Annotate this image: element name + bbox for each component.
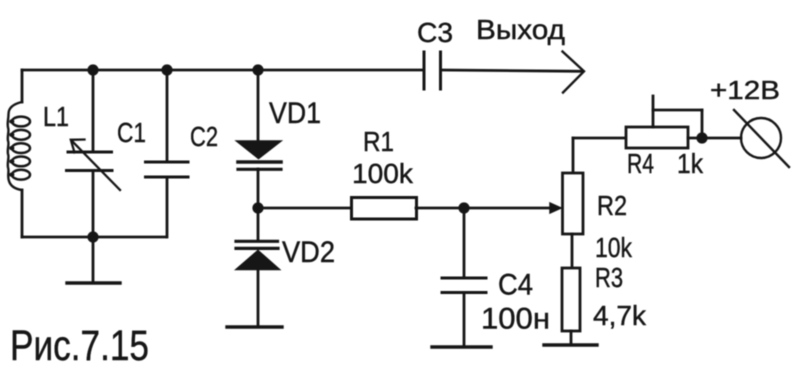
svg-text:L1: L1 [43, 101, 69, 132]
svg-text:VD1: VD1 [269, 97, 321, 130]
svg-text:100k: 100k [352, 158, 414, 189]
wire top bus left [22, 69, 424, 72]
svg-text:C4: C4 [498, 269, 533, 302]
svg-text:R2: R2 [597, 190, 627, 221]
wire mid bus (VD junction to R1) [258, 207, 351, 210]
node (R1 / C4 junction) [458, 202, 469, 213]
node (VD1/VD2 junction) [252, 202, 263, 213]
diode VD2 (varicap) [236, 208, 280, 327]
resistor R4 (trimmer) [626, 96, 702, 148]
wire bottom left bus [22, 236, 166, 239]
resistor R3 [562, 268, 580, 345]
wire node to R2 wiper (arrow) [464, 207, 554, 210]
svg-text:R4: R4 [627, 148, 654, 179]
svg-text:C1: C1 [117, 117, 146, 148]
node (VD1 top) [252, 64, 263, 75]
wire R4 to +12V terminal [688, 137, 741, 140]
terminal +12V [734, 110, 789, 167]
inductor L1 [8, 70, 30, 237]
wire R1 to node [416, 207, 464, 210]
svg-text:100н: 100н [481, 303, 550, 336]
svg-text:VD2: VD2 [282, 236, 335, 269]
diode VD1 (varicap) [237, 70, 282, 208]
ground (below C4) [432, 345, 491, 348]
svg-text:R1: R1 [363, 126, 394, 157]
svg-text:C3: C3 [417, 17, 453, 48]
node (R4 right) [696, 132, 707, 143]
svg-text:10k: 10k [595, 232, 633, 263]
ground (below C1) [67, 237, 120, 283]
svg-text:R3: R3 [595, 262, 623, 293]
svg-text:+12В: +12В [710, 75, 780, 105]
capacitor C4 [442, 208, 486, 347]
svg-text:4,7k: 4,7k [593, 300, 647, 331]
capacitor C1 (variable) [67, 70, 121, 237]
capacitor C2 [146, 70, 189, 237]
output arrowhead [563, 52, 585, 93]
wire R2 top to R4 [573, 137, 626, 140]
svg-text:Рис.7.15: Рис.7.15 [10, 322, 149, 370]
node (bottom bus / C1 ground) [87, 231, 98, 242]
resistor R2 (potentiometer) [563, 138, 584, 268]
capacitor C3 [424, 52, 441, 89]
node (C1 top) [87, 64, 98, 75]
node (C2 top) [161, 64, 172, 75]
svg-text:C2: C2 [190, 121, 218, 152]
svg-text:1k: 1k [677, 148, 704, 179]
resistor R1 [352, 198, 417, 220]
svg-text:Выход: Выход [476, 14, 565, 45]
ground (below VD2) [227, 325, 282, 328]
ground (below R3) [544, 343, 597, 346]
wire top bus right (to output arrow) [441, 70, 582, 71]
